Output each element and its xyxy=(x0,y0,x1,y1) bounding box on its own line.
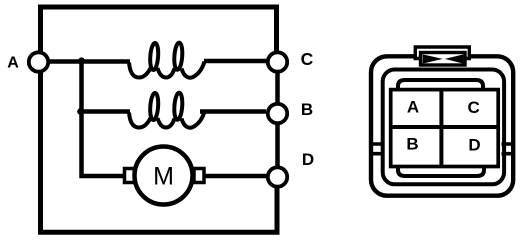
node junction dot 2 xyxy=(77,108,84,115)
connector J1 pin grid xyxy=(391,90,499,167)
wire A to junction and to coil 1 xyxy=(49,59,130,64)
motor M1 brush tab left xyxy=(125,169,135,183)
svg-text:M: M xyxy=(153,163,174,191)
connector J1 cavity rim bottom xyxy=(398,166,484,177)
svg-text:C: C xyxy=(468,98,480,117)
wire top: A up, across top, down to C xyxy=(41,7,277,52)
connector J1 second outline xyxy=(383,70,504,185)
connector J1 lock tab step xyxy=(415,47,469,59)
wire B to D xyxy=(275,125,280,167)
terminal B xyxy=(268,104,287,123)
wire bottom: A down, across bottom, up to D xyxy=(41,73,278,233)
svg-text:B: B xyxy=(301,100,313,119)
motor M1 body xyxy=(135,147,193,205)
svg-text:C: C xyxy=(301,49,314,69)
wire motor to D xyxy=(204,174,267,179)
connector J1 cavity rim top xyxy=(398,80,483,91)
connector J1 outer shell xyxy=(371,56,513,195)
node junction dot 1 xyxy=(78,57,85,64)
svg-text:B: B xyxy=(406,135,418,154)
svg-text:D: D xyxy=(302,150,314,169)
inductor L1 xyxy=(129,42,205,77)
connector J1 lock tab box with bowtie xyxy=(421,53,466,66)
motor M1 brush tab right xyxy=(194,169,204,183)
wire: outer loop left/top/right-to-C xyxy=(41,7,278,232)
connector J1 right latch notch xyxy=(502,144,516,154)
terminal D xyxy=(268,167,287,186)
wire junction column down to motor xyxy=(82,62,125,177)
inductor L2 xyxy=(129,92,205,127)
terminal C xyxy=(268,52,287,71)
terminal A xyxy=(29,52,48,71)
wire junction 2 to coil 2 xyxy=(82,109,131,114)
svg-text:A: A xyxy=(407,98,419,117)
svg-text:D: D xyxy=(468,135,480,154)
wire coil 1 to C xyxy=(204,59,267,64)
svg-text:A: A xyxy=(7,55,19,72)
wire coil 2 to B xyxy=(200,109,266,114)
connector J1 left latch notch xyxy=(369,144,385,154)
wire C to B xyxy=(275,73,280,103)
